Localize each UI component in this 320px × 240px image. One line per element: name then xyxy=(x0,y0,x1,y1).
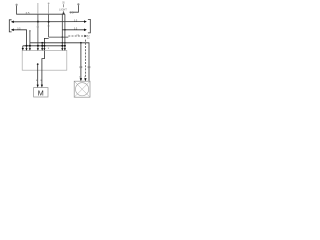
arrows into M box xyxy=(37,85,39,88)
dashed wire continuation to right xyxy=(68,35,84,37)
dashed vertical x=85.4 xyxy=(84,40,86,79)
branch vertical x=80.9 down to pump box xyxy=(80,43,82,80)
wire B horizontal y=37.1 to dashed region xyxy=(49,36,69,38)
bus end stub left with arrow xyxy=(22,46,24,49)
motor M (bottom-left motor box) xyxy=(34,88,48,98)
terminal dot C xyxy=(77,3,79,5)
svg-text:M: M xyxy=(38,89,44,98)
junction dot x48.5 on y21.6 bus xyxy=(48,21,50,23)
junction dot x37.9 on y21.6 bus xyxy=(37,21,39,23)
terminal dot A xyxy=(16,4,18,6)
inside box: left M lead with contact dot xyxy=(37,63,39,65)
junction dots on bus xyxy=(26,45,28,47)
arrows into control box top xyxy=(25,48,27,51)
motor/pump symbol (bottom-right box with circle and X) xyxy=(74,81,90,97)
left arrow of bus y21.6 xyxy=(11,21,14,24)
inside box: stair to right M lead xyxy=(42,51,45,86)
left arrow of y29.8 wire xyxy=(11,29,14,32)
wire from terminal C down then left xyxy=(70,5,79,12)
main bus y=45.8 xyxy=(23,45,65,47)
stair junction dots on y42.8 xyxy=(41,42,43,44)
wire from terminal A down then right (bus y=14.2) xyxy=(17,6,65,15)
connector bracket right xyxy=(88,19,90,33)
svg-text:0.5: 0.5 xyxy=(70,10,74,14)
stair drops to bus and into box xyxy=(41,43,43,50)
arrow into pump box left lead xyxy=(80,78,82,81)
device lead xyxy=(63,4,65,7)
device twin leads x=62.3 and x=64.9 xyxy=(61,14,63,49)
wire vertical x=29.9 to bus xyxy=(29,31,31,49)
component box K1 (large control unit outline) xyxy=(22,50,67,70)
connector bracket left xyxy=(9,20,11,32)
long bus y=21.6 with left and right connector arrows xyxy=(12,21,86,23)
terminal dot B xyxy=(48,3,50,5)
inline connector blob left xyxy=(80,66,83,68)
svg-text:0.5: 0.5 xyxy=(26,11,30,15)
wire vertical x=37.9 from top to box xyxy=(37,3,39,14)
small mark atop x29.9 xyxy=(29,30,31,31)
background xyxy=(0,0,100,100)
inline connector blob right xyxy=(88,66,91,68)
right arrow of bus y21.6 xyxy=(84,20,87,23)
branch dot at x=80.9 xyxy=(80,42,82,44)
right device wire y=29.8 with arrow into bracket xyxy=(62,29,86,31)
junction dot y29.8 at device xyxy=(64,29,66,31)
arrow on dashed wire xyxy=(84,35,87,38)
junction dot device at bus y14 xyxy=(63,12,65,14)
svg-text:2C: 2C xyxy=(87,38,90,40)
wire B vertical x=48.6 xyxy=(48,4,50,14)
arrow into pump box right lead xyxy=(84,78,86,81)
mid horizontal wire y=42.8 spanning to right corner x=89 xyxy=(30,43,89,81)
left wire y=29.8 from bracket, corner down x=26.5 xyxy=(12,30,27,50)
stair upper step: v x=44.4, h y=38.4 xyxy=(44,38,48,42)
